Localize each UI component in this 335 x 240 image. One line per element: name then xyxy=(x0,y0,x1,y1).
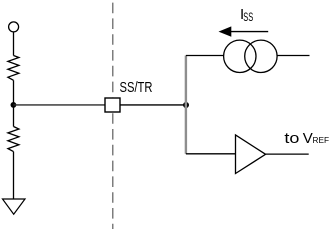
wire R1 to R2 xyxy=(13,80,15,126)
svg-text:to: to xyxy=(284,130,299,147)
arrow Iss line xyxy=(228,31,268,33)
ground xyxy=(3,199,26,214)
SS/TR pin box xyxy=(105,98,120,112)
svg-text:REF: REF xyxy=(313,135,330,145)
wire R2 to ground xyxy=(13,152,15,199)
wire to current source xyxy=(186,55,224,57)
svg-text:SS: SS xyxy=(243,10,253,24)
wire node to SS/TR box xyxy=(13,104,105,106)
SS/TR box white mask xyxy=(105,98,120,112)
wire to buffer xyxy=(186,153,236,155)
svg-text:SS/TR: SS/TR xyxy=(120,79,153,96)
wire junction down xyxy=(185,105,187,154)
svg-text:V: V xyxy=(303,130,313,147)
resistor R1 xyxy=(8,56,19,81)
node junction dot left xyxy=(11,102,17,108)
buffer amp xyxy=(236,135,266,174)
arrow Iss head xyxy=(219,26,232,36)
wire terminal to R1 xyxy=(13,32,15,55)
current source circle right xyxy=(245,40,277,72)
output wire xyxy=(266,153,309,155)
resistor R2 xyxy=(8,127,19,152)
terminal circle xyxy=(9,22,19,32)
wire box to junction xyxy=(120,104,186,106)
wire junction up xyxy=(185,56,187,106)
dashed boundary line xyxy=(112,3,114,229)
current source circle left xyxy=(224,40,256,72)
wire current source right xyxy=(277,55,309,57)
junction dot right xyxy=(183,102,189,108)
